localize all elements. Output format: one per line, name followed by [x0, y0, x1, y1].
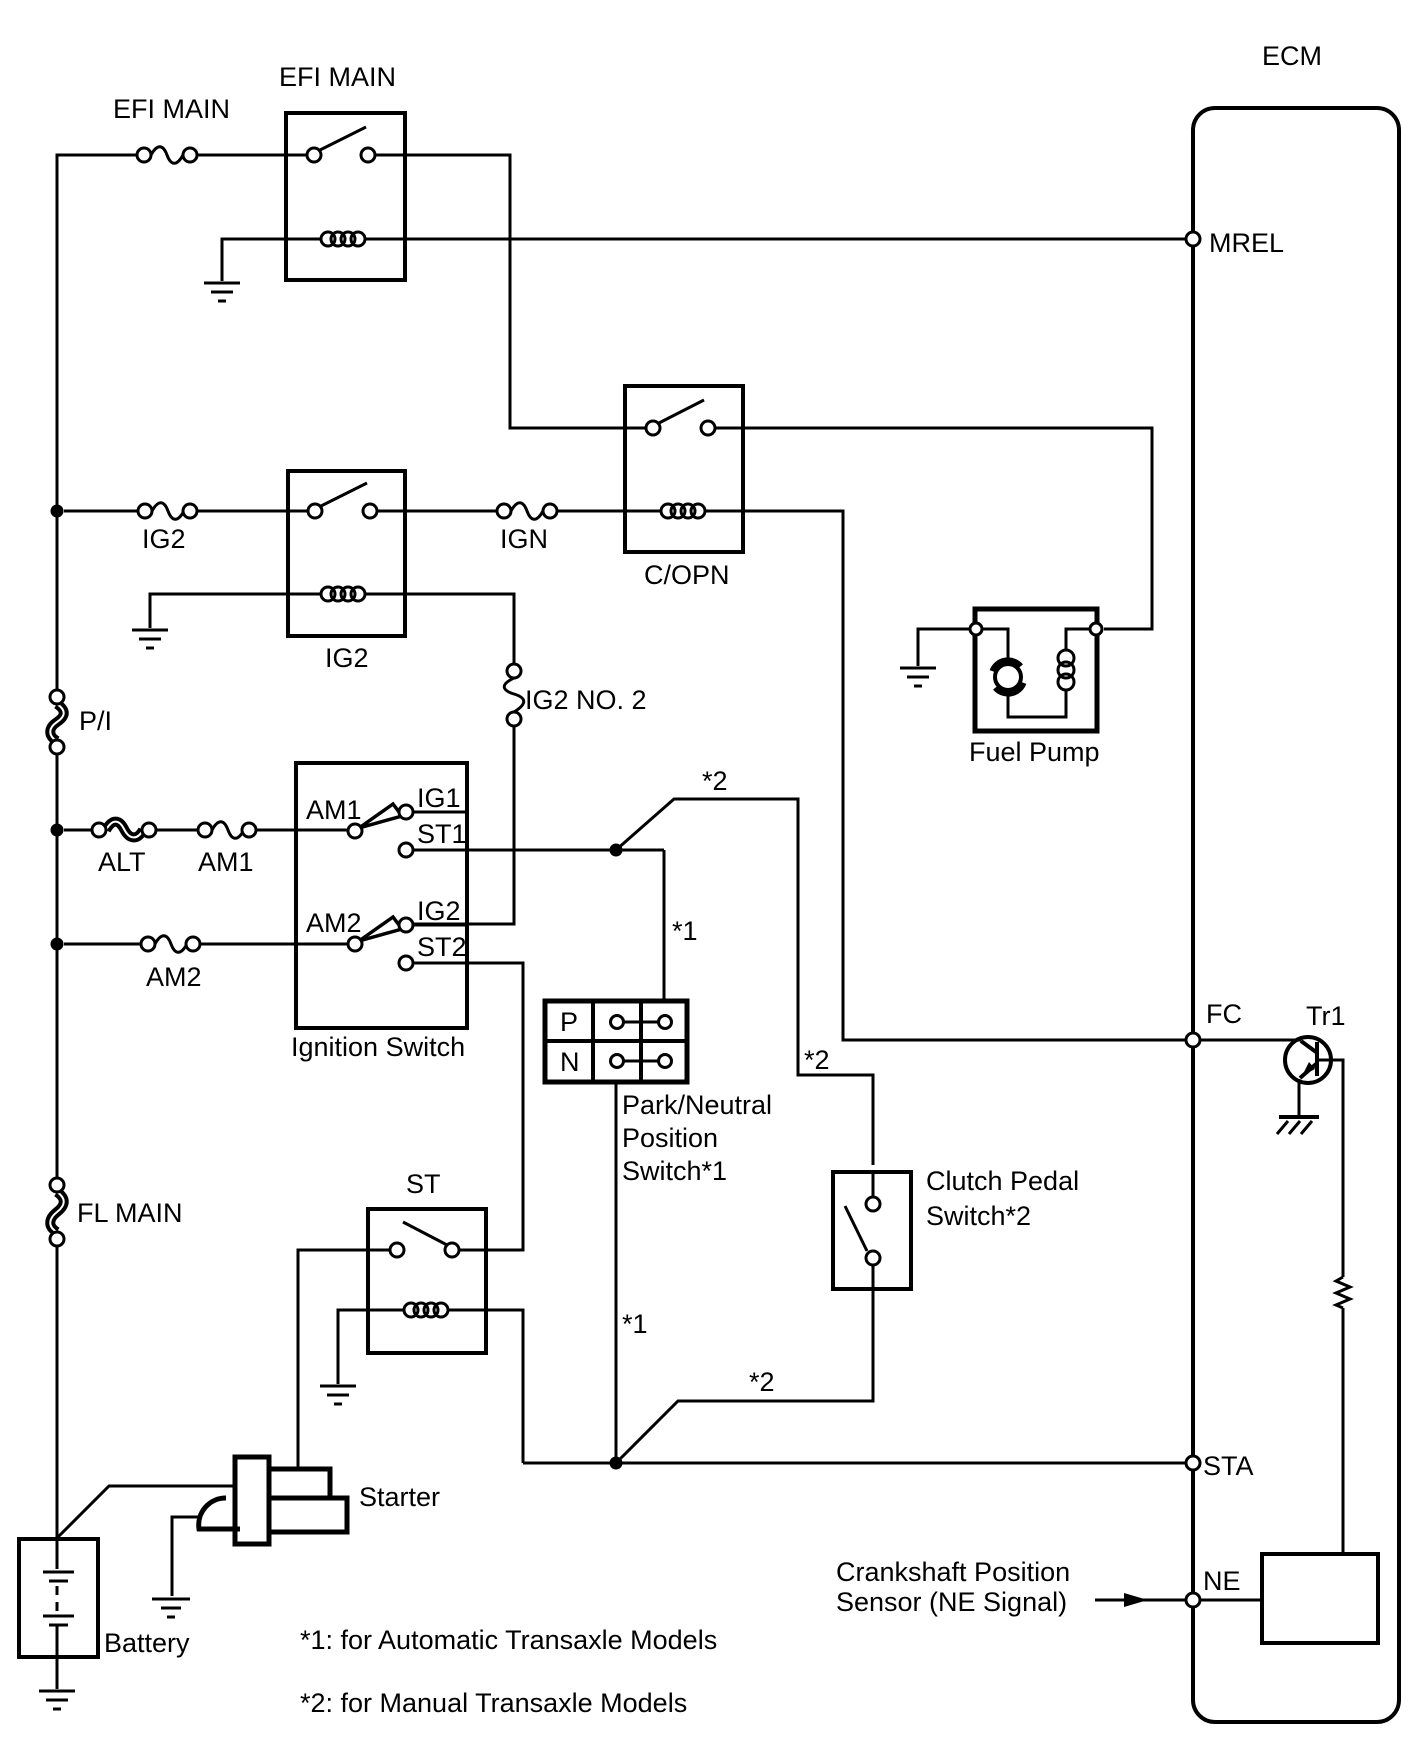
node junction ST1	[610, 844, 623, 857]
wire EFI relay switch to C/OPN switch	[375, 155, 646, 428]
battery BAT	[19, 1539, 190, 1658]
starter M1	[199, 1457, 440, 1544]
svg-text:FC: FC	[1206, 999, 1242, 1029]
wire EFI relay coil left to ground	[222, 239, 321, 281]
svg-text:N: N	[560, 1047, 580, 1077]
svg-text:ST: ST	[406, 1169, 441, 1199]
wire ST relay coil to STA row	[448, 1310, 523, 1463]
svg-text:FL MAIN: FL MAIN	[77, 1198, 183, 1228]
svg-text:*2: *2	[749, 1367, 775, 1397]
note *1	[300, 1625, 717, 1655]
svg-text:ALT: ALT	[98, 847, 146, 877]
wire IG2 NO.2 fuse to ignition switch IG2	[413, 726, 514, 924]
wire C/OPN switch to fuel pump	[715, 428, 1152, 629]
fusible link ALT	[92, 822, 156, 877]
fuse AM1	[198, 822, 256, 877]
fuse AM2	[141, 936, 202, 992]
node junction AM1 row	[51, 824, 64, 837]
svg-text:Tr1: Tr1	[1306, 1001, 1346, 1031]
svg-text:MREL: MREL	[1209, 228, 1284, 258]
svg-text:EFI MAIN: EFI MAIN	[113, 94, 230, 124]
wire starter motor to ground	[172, 1517, 201, 1596]
fusible link P/I	[50, 690, 112, 754]
svg-text:IG1: IG1	[417, 783, 461, 813]
relay IG2	[288, 471, 405, 673]
wire ST relay switch to starter	[298, 1250, 390, 1469]
ground IG2 relay	[132, 630, 168, 648]
ground EFI MAIN relay	[204, 283, 240, 301]
wire *1 path to park/neutral switch	[664, 850, 698, 1001]
svg-text:Crankshaft Position: Crankshaft Position	[836, 1557, 1070, 1587]
pin STA	[1186, 1451, 1254, 1481]
svg-text:STA: STA	[1203, 1451, 1254, 1481]
ignition switch SW1	[291, 763, 467, 1062]
svg-text:*2: for Manual Transaxle Model: *2: for Manual Transaxle Models	[300, 1688, 687, 1718]
wire IG2 row bus to relay	[64, 510, 308, 513]
svg-text:ECM: ECM	[1262, 41, 1322, 71]
svg-text:P: P	[560, 1007, 578, 1037]
svg-text:*1: *1	[672, 916, 698, 946]
svg-text:Clutch Pedal: Clutch Pedal	[926, 1166, 1079, 1196]
transistor Tr1	[1285, 1001, 1346, 1083]
svg-text:*2: *2	[702, 766, 728, 796]
relay C/OPN	[625, 386, 743, 590]
wire *2 upper path to clutch switch	[616, 766, 873, 1165]
node junction IG2 row	[51, 505, 64, 518]
svg-text:C/OPN: C/OPN	[644, 560, 730, 590]
svg-text:Position: Position	[622, 1123, 718, 1153]
node junction STA	[610, 1457, 623, 1470]
svg-text:NE: NE	[1203, 1566, 1241, 1596]
svg-text:AM2: AM2	[306, 908, 362, 938]
fuse IGN	[497, 503, 557, 554]
wire clutch bottom to STA junction	[616, 1289, 873, 1463]
svg-text:AM2: AM2	[146, 962, 202, 992]
note *2	[300, 1688, 687, 1718]
svg-text:IG2: IG2	[142, 524, 186, 554]
wire ST1 to junction	[413, 849, 664, 852]
svg-text:Starter: Starter	[359, 1482, 440, 1512]
wire IG2 relay switch to IGN fuse to C/OPN coil	[377, 510, 661, 513]
ground starter	[152, 1599, 190, 1617]
wire resistor to NE block	[1342, 1308, 1345, 1554]
park/neutral position switch SW2	[545, 1001, 772, 1186]
svg-text:Switch*2: Switch*2	[926, 1201, 1031, 1231]
svg-text:IG2: IG2	[417, 896, 461, 926]
fuel pump FP	[969, 609, 1102, 767]
relay EFI MAIN	[279, 62, 405, 280]
svg-text:Ignition Switch: Ignition Switch	[291, 1032, 465, 1062]
ground ST relay	[320, 1386, 356, 1404]
relay ST	[368, 1169, 486, 1353]
ECM box U1	[1193, 41, 1399, 1722]
svg-text:Switch*1: Switch*1	[622, 1156, 727, 1186]
svg-text:ST2: ST2	[417, 932, 467, 962]
ground fuel pump	[900, 668, 936, 686]
fuse IG2	[138, 503, 197, 554]
svg-text:Fuel Pump: Fuel Pump	[969, 737, 1100, 767]
wire park/neutral bottom to STA junction	[616, 1082, 648, 1463]
pin MREL	[1186, 228, 1284, 258]
wire fuel pump to ground	[918, 629, 970, 666]
svg-text:*1: for Automatic Transaxle Mo: *1: for Automatic Transaxle Models	[300, 1625, 717, 1655]
node junction AM2 row	[51, 938, 64, 951]
wire battery to starter solenoid	[57, 1486, 235, 1538]
wire AM2 row	[64, 943, 348, 946]
wire NE pin to NE block	[1200, 1599, 1262, 1602]
wire MREL net coil to ECM	[365, 238, 1186, 241]
wire IG2 relay coil left to ground	[150, 594, 321, 628]
pin FC	[1186, 999, 1242, 1047]
svg-text:IG2 NO. 2: IG2 NO. 2	[525, 685, 647, 715]
svg-text:*1: *1	[622, 1309, 648, 1339]
ground transistor hatched	[1277, 1117, 1319, 1134]
wire main bus battery to EFI MAIN fuse	[57, 155, 307, 1539]
svg-text:Park/Neutral: Park/Neutral	[622, 1090, 772, 1120]
svg-text:AM1: AM1	[198, 847, 254, 877]
fuse EFI MAIN	[113, 94, 230, 163]
svg-text:ST1: ST1	[417, 819, 467, 849]
clutch pedal switch SW3	[833, 1166, 1079, 1289]
NE signal block	[1262, 1554, 1378, 1643]
svg-text:IG2: IG2	[325, 643, 369, 673]
wire transistor emitter to ground	[1298, 1079, 1301, 1117]
wire battery to ground	[56, 1657, 59, 1689]
ground battery	[39, 1691, 75, 1709]
wire ST2 to ST relay switch	[413, 963, 523, 1250]
svg-text:*2: *2	[804, 1045, 830, 1075]
pin NE	[1186, 1566, 1241, 1607]
fusible link FL MAIN	[50, 1178, 183, 1246]
wire transistor collector to resistor	[1318, 1060, 1343, 1277]
wire ST relay coil left to ground	[338, 1310, 404, 1384]
svg-text:Sensor (NE Signal): Sensor (NE Signal)	[836, 1587, 1067, 1617]
fuse IG2 NO. 2	[504, 664, 646, 726]
crankshaft position sensor label and arrow	[836, 1557, 1186, 1617]
wire C/OPN coil to ECM FC	[705, 511, 1186, 1040]
svg-text:AM1: AM1	[306, 795, 362, 825]
svg-text:Battery: Battery	[104, 1628, 190, 1658]
wire AM1 row	[64, 829, 348, 832]
svg-text:IGN: IGN	[500, 524, 548, 554]
resistor R1	[1336, 1277, 1350, 1308]
wire STA row	[523, 1462, 1186, 1465]
wire IG2 relay coil to IG2 NO.2 fuse	[365, 594, 514, 664]
wire FC pin to transistor	[1200, 1039, 1301, 1042]
svg-text:EFI MAIN: EFI MAIN	[279, 62, 396, 92]
svg-text:P/I: P/I	[79, 706, 112, 736]
